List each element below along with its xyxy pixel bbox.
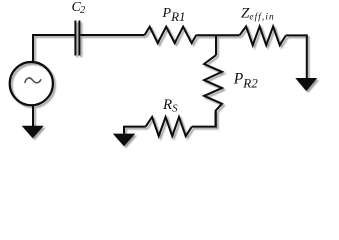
svg-text:C2: C2 (72, 0, 87, 16)
svg-text:Zeff,in: Zeff,in (241, 6, 275, 23)
svg-text:RS: RS (162, 97, 178, 115)
svg-text:PR1: PR1 (162, 6, 186, 24)
svg-text:PR2: PR2 (233, 70, 258, 90)
